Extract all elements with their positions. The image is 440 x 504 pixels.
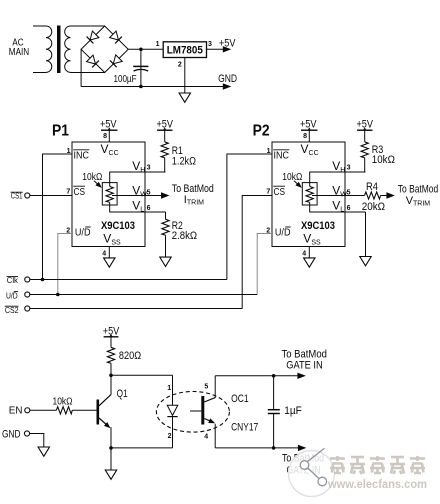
label OC1 xyxy=(231,393,249,405)
node U/D input xyxy=(25,292,30,297)
svg-text:GND: GND xyxy=(218,73,237,85)
svg-text:To BatMod: To BatMod xyxy=(282,348,327,360)
svg-text:CNY17: CNY17 xyxy=(231,422,258,434)
node junction cap top xyxy=(139,48,143,52)
svg-text:7: 7 xyxy=(66,188,70,195)
node collector junction xyxy=(109,374,113,378)
svg-text:4: 4 xyxy=(204,434,208,441)
svg-text:6: 6 xyxy=(147,205,151,212)
wire P1 wiper output xyxy=(145,195,162,197)
svg-text:www.elecfans.com: www.elecfans.com xyxy=(327,477,427,491)
svg-text:2.8kΩ: 2.8kΩ xyxy=(172,230,197,242)
capacitor C1 100uF xyxy=(114,49,149,86)
svg-text:LM7805: LM7805 xyxy=(167,45,203,57)
label CNY17 xyxy=(231,422,258,434)
bridge rectifier diamond xyxy=(81,26,128,73)
diode D4 lower-right xyxy=(110,55,122,67)
wire bottom of LED loop xyxy=(111,447,173,449)
wire regulator pin2 down xyxy=(184,58,186,93)
wire CS2 bus xyxy=(30,308,242,310)
svg-text:OC1: OC1 xyxy=(231,393,249,405)
svg-text:2: 2 xyxy=(178,61,182,68)
diode D3 lower-left xyxy=(86,55,98,67)
node EN input xyxy=(25,408,30,413)
svg-text:GND: GND xyxy=(2,428,21,440)
capacitor C2 1uF xyxy=(268,405,302,417)
node CS1 input xyxy=(25,193,30,198)
svg-text:EN: EN xyxy=(9,406,23,417)
wire P2 CS to CS2 bus xyxy=(242,196,272,309)
transformer T1 secondary coil xyxy=(65,26,105,73)
wire P1 INC to Clk bus xyxy=(43,154,73,280)
watermark logo xyxy=(289,448,335,496)
optocoupler OC1 box xyxy=(204,376,273,448)
ground under P2 Vl xyxy=(360,257,371,266)
svg-text:To BatMod: To BatMod xyxy=(172,183,214,195)
svg-text:820Ω: 820Ω xyxy=(119,350,141,362)
transistor Q1 xyxy=(72,375,127,448)
svg-text:U/D: U/D xyxy=(75,228,91,239)
node To BatMod Vtrim xyxy=(398,184,438,208)
wire +5V output xyxy=(207,48,224,50)
resistor R1 labels xyxy=(172,145,196,168)
svg-text:3: 3 xyxy=(147,164,151,171)
node Clk input xyxy=(25,277,30,282)
node junctions capacitor xyxy=(272,374,276,378)
resistor R2 xyxy=(165,212,167,219)
wire Vw wiper pin5 xyxy=(112,195,145,197)
opto LED chain pins 1-2 xyxy=(167,375,178,448)
svg-text:1.2kΩ: 1.2kΩ xyxy=(172,156,196,168)
svg-text:20kΩ: 20kΩ xyxy=(362,201,385,213)
digital pot chip X9C103 (shared template) xyxy=(66,118,173,267)
resistor R3 labels xyxy=(372,144,395,166)
svg-text:MAIN: MAIN xyxy=(9,47,29,58)
wire Vl pin6 xyxy=(110,205,166,212)
wire ground rail xyxy=(81,86,223,88)
wire EN to resistor xyxy=(30,409,56,411)
ground xyxy=(179,93,190,102)
transformer core xyxy=(57,26,61,74)
svg-text:CS1: CS1 xyxy=(11,192,23,201)
wire bridge to regulator xyxy=(128,48,163,50)
wire P2 Vl to ground xyxy=(365,212,367,256)
node junction cap bottom xyxy=(139,85,143,89)
wire Vh pin3 xyxy=(110,172,166,183)
svg-text:4: 4 xyxy=(102,251,106,258)
svg-text:10kΩ: 10kΩ xyxy=(372,154,395,166)
wire gate return output xyxy=(274,447,299,449)
transformer T1 primary coil xyxy=(33,26,52,73)
node GND input xyxy=(24,431,29,436)
wire P2 U/D to bus xyxy=(257,234,272,295)
svg-text:Q1: Q1 xyxy=(117,388,128,400)
wire P2 INC to Clk bus xyxy=(227,154,272,280)
svg-text:5: 5 xyxy=(204,383,208,390)
svg-text:+5V: +5V xyxy=(219,38,236,50)
svg-text:100µF: 100µF xyxy=(114,74,137,85)
svg-text:1: 1 xyxy=(167,385,171,392)
wire P1 CS to CS1 input xyxy=(30,195,72,197)
svg-text:10kΩ: 10kΩ xyxy=(53,396,73,407)
svg-text:3: 3 xyxy=(208,41,212,48)
phototransistor of OC1 xyxy=(190,396,216,426)
svg-text:+5V: +5V xyxy=(100,118,117,130)
svg-text:INC: INC xyxy=(74,151,90,162)
regulator U1 LM7805 xyxy=(156,41,212,68)
svg-text:1µF: 1µF xyxy=(284,405,302,417)
svg-text:To BatMod: To BatMod xyxy=(398,184,438,196)
svg-text:P2: P2 xyxy=(253,123,270,140)
wire GND input to ground xyxy=(30,434,44,447)
diode D1 upper-left xyxy=(87,31,99,43)
svg-text:R4: R4 xyxy=(366,181,378,193)
svg-text:10kΩ: 10kΩ xyxy=(82,172,102,183)
node To BatMod Itrim xyxy=(172,183,214,206)
wire P2 wiper to R4 xyxy=(345,195,365,197)
ground at GND input xyxy=(38,447,49,456)
dashed coupling ellipse xyxy=(156,392,229,433)
diode D2 upper-right xyxy=(109,31,121,43)
wire P1 U/D to bus xyxy=(58,234,72,295)
resistor R4 20k xyxy=(365,192,381,199)
wire gate in output xyxy=(274,375,298,377)
wire top of LED loop xyxy=(111,374,173,376)
svg-text:CS: CS xyxy=(74,187,86,198)
wire bridge left vertex down xyxy=(80,49,82,86)
svg-text:Clk: Clk xyxy=(7,276,19,285)
svg-text:1: 1 xyxy=(156,41,160,48)
svg-text:GATE IN: GATE IN xyxy=(286,360,322,372)
svg-text:X9C103: X9C103 xyxy=(101,220,135,232)
svg-text:P1: P1 xyxy=(52,123,69,140)
potentiometer 10k internal xyxy=(82,172,117,205)
resistor 820 ohm xyxy=(107,347,114,363)
svg-text:2: 2 xyxy=(168,433,172,440)
ground under Q1 xyxy=(105,470,116,479)
watermark chinese text xyxy=(330,456,425,474)
wire Clk bus xyxy=(30,279,227,281)
digital pot P2 chip xyxy=(266,118,373,267)
wire U/D bus xyxy=(30,294,257,296)
AC MAIN label xyxy=(9,38,29,59)
svg-text:8: 8 xyxy=(103,133,107,140)
svg-text:U/D: U/D xyxy=(6,291,18,300)
wire emitter to ground xyxy=(110,448,112,470)
resistor 10k base xyxy=(56,407,72,414)
svg-text:CS2: CS2 xyxy=(5,306,19,315)
ground under R2 xyxy=(160,257,171,266)
node CS2 input xyxy=(25,306,30,311)
